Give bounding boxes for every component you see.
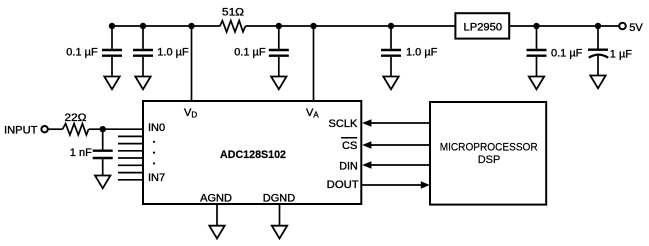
wire AGND to ground [216,204,218,226]
pin stub IN2 [118,143,143,145]
ground under fourth 1.0uF [383,77,398,90]
regulator LP2950 [455,13,509,38]
ground under third 0.1uF [271,77,286,90]
node junction dot at C4 [388,23,394,29]
wire DIN with arrow into ADC [371,164,430,166]
pin stub IN1 [118,135,143,137]
node junction dot at VA wire [310,23,316,29]
wire VD from rail to ADC [191,26,193,102]
wire top supply rail from first cap to 51ohm resistor [112,25,220,27]
node junction dot at C2 [140,23,146,29]
svg-text:5V: 5V [629,22,643,34]
pin stub IN3 [118,150,143,152]
wire from INPUT terminal to 22ohm [48,128,63,130]
capacitor 1.0uF (fourth) [381,26,401,77]
ground under 1nF [95,176,110,189]
wire top supply rail from 51ohm resistor to LP2950 [245,25,455,27]
svg-text:MICROPROCESSOR: MICROPROCESSOR [440,141,538,153]
svg-text:DIN: DIN [339,161,358,173]
pin stub IN6 [118,172,143,174]
resistor 22ohm [63,124,89,135]
wire VA from rail to ADC [313,26,315,102]
svg-text:51Ω: 51Ω [222,7,244,19]
svg-text:ADC128S102: ADC128S102 [220,149,286,161]
capacitor 0.1uF (fifth) [527,26,547,77]
svg-text:DSP: DSP [478,154,501,166]
ADC U1 ADC128S102 box [143,101,361,204]
ground under DGND [272,226,287,239]
wire DGND to ground [279,204,281,226]
microprocessor DSP box [430,102,546,205]
svg-text:INPUT: INPUT [4,124,38,136]
ground under fifth 0.1uF [529,77,544,90]
capacitor 0.1uF (third, after 51ohm) [269,26,289,77]
svg-text:22Ω: 22Ω [65,112,87,124]
svg-text:1.0 µF: 1.0 µF [406,47,438,59]
wire DOUT with arrow into microprocessor [361,184,421,186]
ground under 1.0uF second [135,77,150,90]
svg-text:DGND: DGND [263,193,295,205]
svg-text:0.1 µF: 0.1 µF [66,47,98,59]
svg-text:LP2950: LP2950 [464,22,503,34]
capacitor 0.1uF (first) [102,26,122,77]
ellipsis dots between IN0 and IN7 [153,141,155,143]
pin stub IN4 [118,157,143,159]
capacitor 1.0uF (second) [133,26,153,77]
svg-text:IN7: IN7 [148,172,165,184]
wire CS with arrow into ADC [371,144,430,146]
ground under AGND [209,226,224,239]
node junction dot at VD wire [188,23,194,29]
svg-text:0.1 µF: 0.1 µF [551,47,583,59]
resistor 51ohm [220,21,246,32]
svg-text:SCLK: SCLK [329,118,358,130]
node junction dot at C3 [276,23,282,29]
ground under first 0.1uF [104,77,119,90]
node junction dot at C5 [533,23,539,29]
node junction dot at 1nF [100,126,106,132]
pin stub IN7 [118,179,143,181]
pin stub IN5 [118,164,143,166]
svg-text:AGND: AGND [200,193,232,205]
svg-text:1 µF: 1 µF [610,48,633,60]
svg-text:IN0: IN0 [148,122,165,134]
wire top supply rail right segment [510,25,619,27]
svg-text:CS: CS [342,140,357,152]
svg-text:1 nF: 1 nF [70,147,92,159]
wire from 22ohm to IN0 pin [89,128,143,130]
ground under 1uF [590,76,605,89]
node junction dot at C1 [109,23,115,29]
capacitor 1uF polarized (sixth) [588,26,608,76]
terminal INPUT [41,126,47,132]
node junction dot at C6 [595,23,601,29]
terminal 5V [619,23,626,30]
svg-text:DOUT: DOUT [327,179,359,191]
svg-text:0.1 µF: 0.1 µF [234,47,266,59]
svg-text:1.0 µF: 1.0 µF [157,47,189,59]
wire SCLK with arrow into ADC [371,122,430,124]
capacitor 1nF [93,129,113,175]
